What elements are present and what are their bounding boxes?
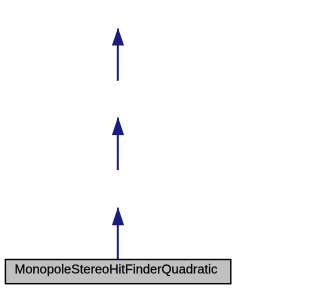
doxygen inheritance graph for MonopoleStereoHitFinderQuadratic bbox=[0, 0, 236, 291]
inheritance arrow 2 (middle) bbox=[112, 117, 124, 170]
svg-text:MonopoleStereoHitFinderQuadrat: MonopoleStereoHitFinderQuadratic bbox=[15, 261, 218, 276]
inheritance arrow 3 (bottom) bbox=[112, 207, 124, 259]
class box MonopoleStereoHitFinderQuadratic bbox=[5, 260, 230, 284]
inheritance arrow 1 (top) bbox=[112, 28, 124, 81]
